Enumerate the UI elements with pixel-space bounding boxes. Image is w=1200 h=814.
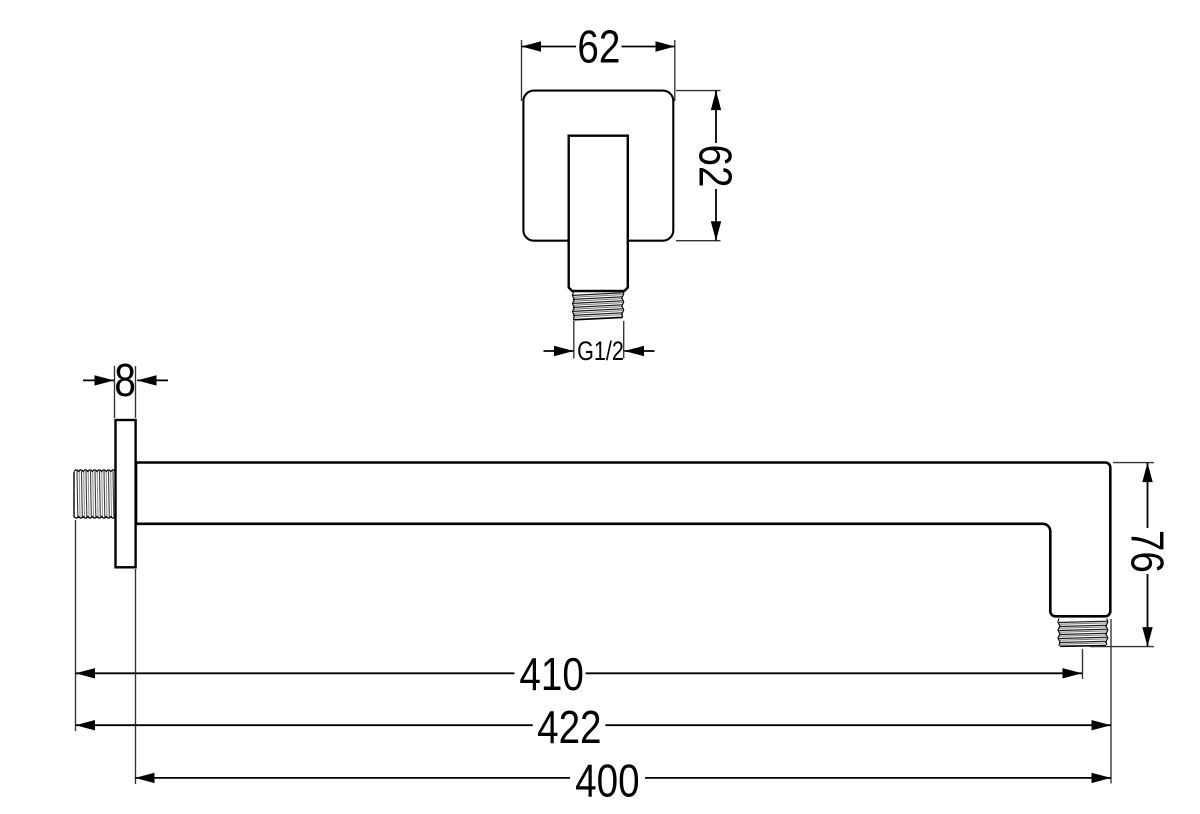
svg-text:G1/2: G1/2	[577, 337, 624, 367]
svg-text:422: 422	[537, 702, 601, 753]
svg-text:62: 62	[577, 22, 620, 73]
svg-text:410: 410	[519, 649, 583, 700]
svg-text:76: 76	[1122, 530, 1173, 573]
svg-text:62: 62	[690, 145, 741, 188]
svg-text:400: 400	[575, 755, 639, 806]
svg-text:8: 8	[114, 355, 135, 406]
